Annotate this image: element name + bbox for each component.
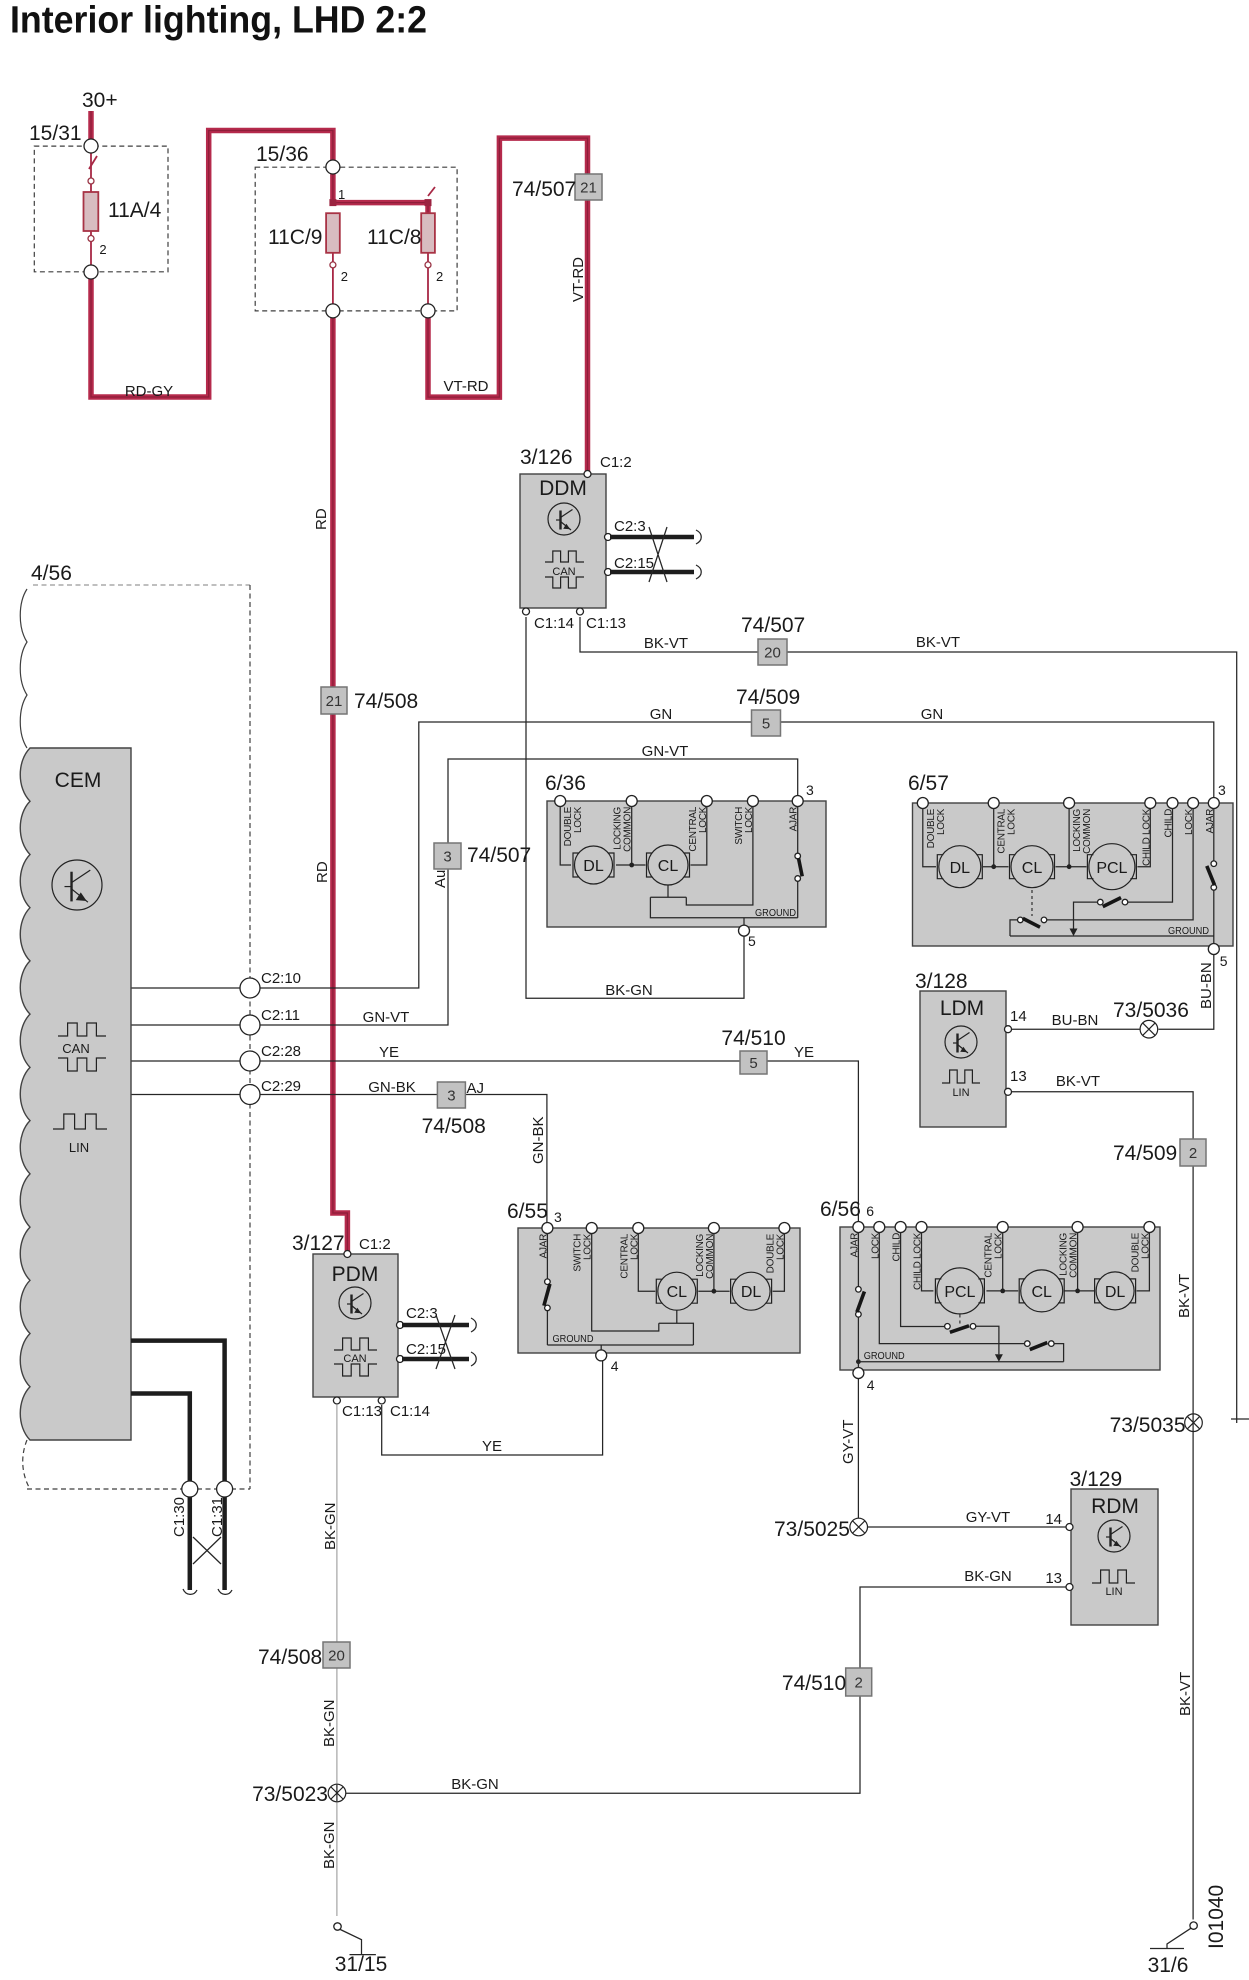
svg-text:C2:3: C2:3 — [614, 518, 646, 535]
svg-text:4/56: 4/56 — [31, 562, 72, 585]
svg-text:74/509: 74/509 — [736, 686, 800, 709]
svg-text:6: 6 — [866, 1203, 874, 1219]
svg-text:3: 3 — [806, 782, 814, 798]
svg-text:PDM: PDM — [332, 1263, 379, 1286]
svg-text:74/509: 74/509 — [1113, 1142, 1177, 1165]
svg-text:3/126: 3/126 — [520, 446, 573, 469]
svg-text:73/5023: 73/5023 — [252, 1783, 328, 1806]
svg-text:30+: 30+ — [82, 89, 118, 112]
svg-text:6/57: 6/57 — [908, 772, 949, 795]
svg-text:6/55: 6/55 — [507, 1200, 548, 1223]
svg-text:CL: CL — [658, 858, 679, 875]
svg-text:BK-VT: BK-VT — [1176, 1274, 1193, 1318]
svg-text:C1:2: C1:2 — [359, 1236, 391, 1253]
svg-text:15/36: 15/36 — [256, 143, 309, 166]
svg-text:14: 14 — [1045, 1511, 1062, 1528]
svg-text:21: 21 — [580, 180, 597, 197]
svg-text:C1:13: C1:13 — [342, 1403, 382, 1420]
svg-text:C2:3: C2:3 — [406, 1305, 438, 1322]
svg-text:74/508: 74/508 — [258, 1646, 322, 1669]
svg-text:74/508: 74/508 — [354, 690, 418, 713]
svg-text:PCL: PCL — [1096, 860, 1127, 877]
svg-text:74/507: 74/507 — [512, 178, 576, 201]
svg-text:20: 20 — [764, 645, 781, 662]
svg-text:GN: GN — [650, 706, 673, 723]
svg-text:CL: CL — [1022, 860, 1043, 877]
svg-text:Au: Au — [432, 870, 449, 888]
svg-text:BK-GN: BK-GN — [451, 1776, 499, 1793]
svg-text:4: 4 — [611, 1358, 619, 1374]
svg-text:31/6: 31/6 — [1148, 1954, 1189, 1977]
svg-text:AJ: AJ — [467, 1080, 485, 1097]
svg-text:CAN: CAN — [552, 566, 575, 578]
svg-text:11C/8: 11C/8 — [367, 226, 421, 249]
svg-text:DL: DL — [950, 860, 971, 877]
svg-text:BK-GN: BK-GN — [321, 1821, 338, 1869]
svg-text:C1:30: C1:30 — [171, 1497, 188, 1537]
svg-text:31/15: 31/15 — [335, 1953, 388, 1976]
svg-text:CAN: CAN — [62, 1041, 89, 1056]
svg-text:2: 2 — [436, 269, 443, 284]
svg-text:LDM: LDM — [940, 997, 984, 1020]
svg-text:GROUND: GROUND — [864, 1350, 905, 1362]
svg-text:LOCKINGCOMMON: LOCKINGCOMMON — [695, 1233, 716, 1278]
svg-text:GROUND: GROUND — [755, 907, 796, 919]
svg-text:GY-VT: GY-VT — [966, 1509, 1010, 1526]
svg-text:Interior lighting, LHD 2:2: Interior lighting, LHD 2:2 — [10, 0, 427, 42]
svg-text:DDM: DDM — [539, 477, 587, 500]
svg-text:5: 5 — [762, 716, 770, 733]
svg-text:C2:28: C2:28 — [261, 1043, 301, 1060]
svg-text:BK-GN: BK-GN — [605, 982, 653, 999]
svg-text:RD: RD — [313, 508, 330, 530]
svg-text:DL: DL — [1105, 1284, 1126, 1301]
svg-text:5: 5 — [749, 1055, 757, 1072]
svg-text:13: 13 — [1045, 1570, 1062, 1587]
svg-text:I01040: I01040 — [1205, 1885, 1228, 1949]
svg-text:LIN: LIN — [69, 1140, 89, 1155]
svg-text:14: 14 — [1010, 1008, 1027, 1025]
svg-text:RD: RD — [314, 861, 331, 883]
svg-text:GROUND: GROUND — [553, 1333, 594, 1345]
svg-text:CL: CL — [667, 1284, 688, 1301]
svg-text:C1:2: C1:2 — [600, 454, 632, 471]
svg-text:21: 21 — [326, 693, 343, 710]
svg-text:CL: CL — [1031, 1284, 1052, 1301]
svg-text:C1:14: C1:14 — [390, 1403, 430, 1420]
svg-text:C2:11: C2:11 — [261, 1007, 300, 1024]
svg-text:LOCKINGCOMMON: LOCKINGCOMMON — [1072, 808, 1093, 853]
svg-text:3/127: 3/127 — [292, 1232, 345, 1255]
svg-text:5: 5 — [748, 933, 756, 949]
svg-text:CEM: CEM — [55, 769, 102, 792]
svg-text:2: 2 — [855, 1675, 863, 1692]
svg-text:GN-BK: GN-BK — [368, 1079, 416, 1096]
svg-text:RD-GY: RD-GY — [125, 383, 173, 400]
svg-text:13: 13 — [1010, 1068, 1027, 1085]
svg-text:GY-VT: GY-VT — [840, 1420, 857, 1464]
svg-text:LOCKINGCOMMON: LOCKINGCOMMON — [613, 806, 634, 851]
svg-text:3: 3 — [554, 1209, 562, 1225]
svg-text:GROUND: GROUND — [1168, 925, 1209, 937]
svg-text:3/128: 3/128 — [915, 970, 968, 993]
svg-text:DL: DL — [741, 1284, 762, 1301]
svg-text:15/31: 15/31 — [29, 122, 82, 145]
svg-text:BK-VT: BK-VT — [1177, 1672, 1194, 1716]
svg-text:YE: YE — [794, 1044, 814, 1061]
svg-text:BK-GN: BK-GN — [321, 1699, 338, 1747]
svg-text:74/510: 74/510 — [782, 1672, 846, 1695]
svg-text:74/510: 74/510 — [721, 1027, 785, 1050]
svg-text:C2:15: C2:15 — [614, 555, 654, 572]
svg-text:GN-VT: GN-VT — [363, 1009, 410, 1026]
svg-text:C1:14: C1:14 — [534, 615, 574, 632]
svg-text:C1:13: C1:13 — [586, 615, 626, 632]
svg-text:YE: YE — [379, 1044, 399, 1061]
svg-text:3: 3 — [443, 849, 451, 866]
svg-text:74/508: 74/508 — [422, 1115, 486, 1138]
svg-text:C2:10: C2:10 — [261, 970, 301, 987]
svg-text:LIN: LIN — [952, 1087, 969, 1099]
svg-text:LIN: LIN — [1105, 1586, 1122, 1598]
svg-text:11C/9: 11C/9 — [268, 226, 322, 249]
svg-text:6/36: 6/36 — [545, 772, 586, 795]
svg-text:74/507: 74/507 — [467, 844, 531, 867]
svg-text:VT-RD: VT-RD — [570, 257, 587, 302]
svg-text:C1:31: C1:31 — [209, 1497, 226, 1537]
svg-text:73/5036: 73/5036 — [1113, 999, 1189, 1022]
svg-text:5: 5 — [1220, 953, 1228, 969]
svg-text:BK-GN: BK-GN — [964, 1568, 1012, 1585]
svg-text:3/129: 3/129 — [1070, 1468, 1123, 1491]
svg-text:6/56: 6/56 — [820, 1198, 861, 1221]
svg-text:GN-VT: GN-VT — [642, 743, 689, 760]
svg-text:BU-BN: BU-BN — [1052, 1012, 1099, 1029]
svg-text:BK-VT: BK-VT — [1056, 1073, 1100, 1090]
svg-text:2: 2 — [1189, 1145, 1197, 1162]
svg-text:YE: YE — [482, 1438, 502, 1455]
svg-text:RDM: RDM — [1091, 1495, 1139, 1518]
svg-text:73/5025: 73/5025 — [774, 1518, 850, 1541]
svg-text:VT-RD: VT-RD — [444, 378, 489, 395]
svg-text:PCL: PCL — [944, 1284, 975, 1301]
svg-text:3: 3 — [447, 1088, 455, 1105]
svg-text:GN: GN — [921, 706, 944, 723]
svg-text:LOCKINGCOMMON: LOCKINGCOMMON — [1059, 1232, 1080, 1277]
svg-text:11A/4: 11A/4 — [108, 199, 162, 222]
svg-text:GN-BK: GN-BK — [530, 1116, 547, 1164]
svg-text:C2:29: C2:29 — [261, 1078, 301, 1095]
svg-text:20: 20 — [328, 1648, 345, 1665]
svg-text:2: 2 — [99, 242, 106, 257]
svg-text:3: 3 — [1218, 782, 1226, 798]
svg-text:73/5035: 73/5035 — [1110, 1414, 1186, 1437]
svg-text:DL: DL — [583, 858, 604, 875]
svg-text:C2:15: C2:15 — [406, 1341, 446, 1358]
svg-text:4: 4 — [867, 1377, 875, 1393]
svg-text:BK-VT: BK-VT — [916, 634, 960, 651]
svg-text:1: 1 — [338, 187, 345, 202]
svg-text:CAN: CAN — [343, 1353, 366, 1365]
svg-text:74/507: 74/507 — [741, 614, 805, 637]
svg-text:BK-VT: BK-VT — [644, 635, 688, 652]
svg-text:BK-GN: BK-GN — [322, 1502, 339, 1550]
svg-text:BU-BN: BU-BN — [1198, 962, 1215, 1009]
svg-text:2: 2 — [341, 269, 348, 284]
